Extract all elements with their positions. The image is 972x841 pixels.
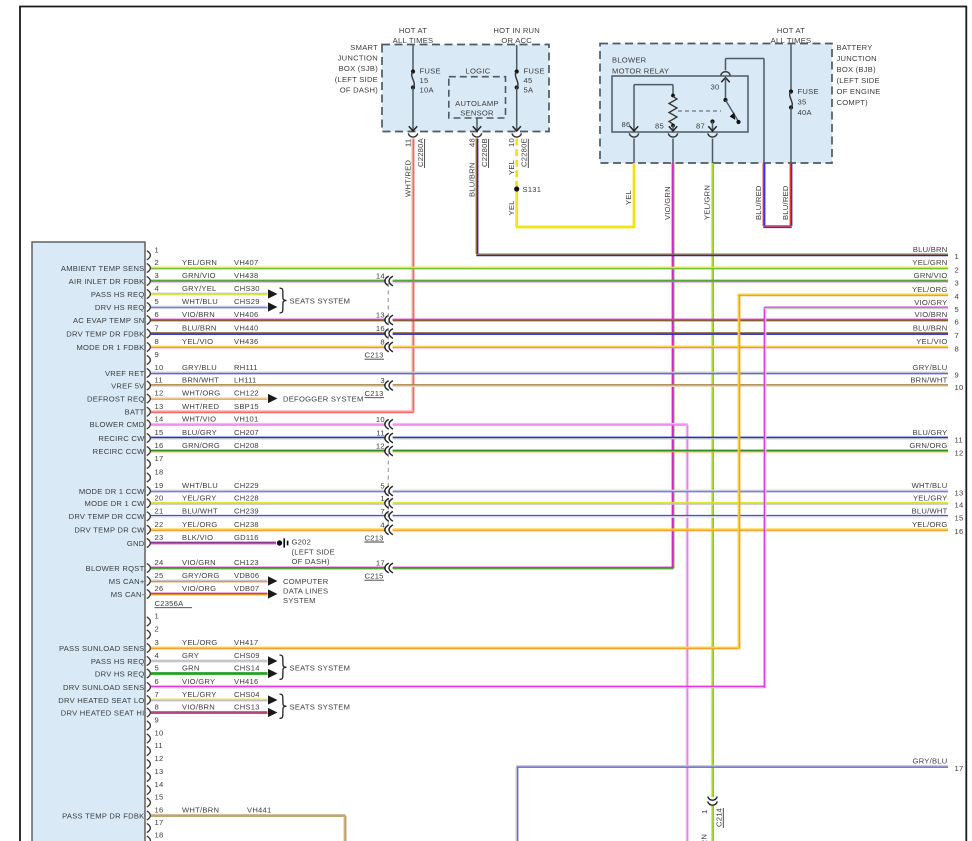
wire BLU/RED from relay pin 30 down [762, 163, 764, 226]
relay pin 30 connector arc at relay top [721, 72, 731, 76]
svg-text:5: 5 [155, 664, 159, 673]
module pin 16 [147, 446, 151, 455]
svg-text:11: 11 [155, 741, 163, 750]
module pin 7 (connector 2) [147, 695, 151, 704]
svg-text:16: 16 [376, 324, 385, 333]
svg-text:FUSE: FUSE [524, 67, 545, 76]
svg-text:GD116: GD116 [234, 533, 259, 542]
svg-text:YEL: YEL [507, 200, 516, 215]
svg-text:14: 14 [955, 501, 964, 510]
svg-text:PASS SUNLOAD SENS: PASS SUNLOAD SENS [59, 644, 145, 653]
svg-text:86: 86 [622, 120, 631, 129]
svg-text:AMBIENT TEMP SENS: AMBIENT TEMP SENS [61, 264, 145, 273]
svg-text:11: 11 [955, 435, 963, 444]
svg-text:40A: 40A [798, 108, 813, 117]
svg-text:ALL TIMES: ALL TIMES [393, 36, 434, 45]
svg-text:3: 3 [380, 376, 384, 385]
svg-text:VREF 5V: VREF 5V [111, 381, 145, 390]
svg-text:10: 10 [155, 363, 164, 372]
wire VIO/GRN CH123 row 24 (BLOWER RQST) [151, 566, 386, 568]
svg-text:GRN/VIO: GRN/VIO [914, 271, 948, 280]
blower motor relay dashed module box [600, 44, 832, 164]
wire WHT/BLU CH229 row 19 [151, 489, 386, 491]
svg-text:LH111: LH111 [234, 376, 257, 385]
svg-text:14: 14 [155, 780, 164, 789]
svg-text:AUTOLAMP: AUTOLAMP [455, 99, 499, 108]
svg-text:10: 10 [507, 138, 516, 147]
inline connector C213 pin 12 [385, 446, 389, 456]
svg-text:VIO/GRY: VIO/GRY [182, 677, 215, 686]
svg-text:BATT: BATT [125, 408, 145, 417]
svg-text:VH441: VH441 [247, 806, 271, 815]
wire GRY/BLU down off page [515, 767, 517, 841]
svg-text:WHT/BLU: WHT/BLU [182, 481, 218, 490]
svg-text:YEL/GRY: YEL/GRY [913, 493, 948, 502]
svg-text:GRY: GRY [182, 651, 199, 660]
svg-text:BLU/RED: BLU/RED [781, 185, 790, 220]
svg-text:GRY/BLU: GRY/BLU [182, 363, 217, 372]
svg-text:VH416: VH416 [234, 677, 258, 686]
relay coil between pins 86 and 85 [634, 84, 673, 86]
svg-text:14: 14 [155, 414, 164, 423]
svg-text:11: 11 [403, 139, 412, 147]
svg-text:48: 48 [467, 138, 476, 147]
svg-text:YEL/GRN: YEL/GRN [700, 834, 709, 841]
svg-text:11: 11 [376, 429, 384, 438]
svg-text:7: 7 [380, 507, 384, 516]
svg-text:1: 1 [955, 252, 959, 261]
svg-text:16: 16 [155, 441, 164, 450]
svg-text:7: 7 [955, 331, 959, 340]
svg-text:VDB06: VDB06 [234, 571, 259, 580]
module pin 15 (connector 2) [147, 798, 151, 807]
svg-text:21: 21 [155, 506, 164, 515]
relay pin 30 feed and movable contact arm [721, 78, 729, 83]
svg-text:BLU/WHT: BLU/WHT [182, 506, 218, 515]
svg-text:GRN: GRN [182, 664, 200, 673]
svg-text:BLU/BRN: BLU/BRN [913, 324, 948, 333]
module pin 3 (connector 2) [147, 643, 151, 652]
svg-text:COMPT): COMPT) [837, 98, 869, 107]
svg-text:RH111: RH111 [234, 363, 258, 372]
svg-text:VIO/GRN: VIO/GRN [663, 186, 672, 220]
module pin 3 [147, 276, 151, 285]
svg-text:15: 15 [420, 76, 429, 85]
svg-text:GRY/YEL: GRY/YEL [182, 284, 217, 293]
svg-text:YEL/VIO: YEL/VIO [182, 337, 213, 346]
svg-text:VH436: VH436 [234, 337, 258, 346]
svg-text:VIO/GRN: VIO/GRN [182, 558, 216, 567]
svg-text:S131: S131 [523, 185, 542, 194]
svg-text:3: 3 [955, 278, 959, 287]
svg-text:C2356A: C2356A [155, 599, 185, 608]
svg-text:OF ENGINE: OF ENGINE [837, 87, 881, 96]
svg-text:1: 1 [155, 612, 159, 621]
wire WHT/BRN VH441 row 16b [151, 814, 346, 816]
svg-text:C214: C214 [715, 808, 724, 827]
svg-text:6: 6 [955, 317, 959, 326]
module pin 5 (connector 2) [147, 669, 151, 678]
svg-text:4: 4 [380, 520, 384, 529]
svg-text:CH123: CH123 [234, 558, 259, 567]
wire WHT/RED SBP15 row 13 (BATT) [151, 410, 414, 412]
svg-text:19: 19 [155, 481, 164, 490]
svg-text:PASS HS REQ: PASS HS REQ [91, 290, 145, 299]
wire GRN CHS14 row 5b to seats system [151, 672, 268, 674]
svg-text:MOTOR RELAY: MOTOR RELAY [612, 67, 669, 76]
svg-text:BLU/BRN: BLU/BRN [913, 245, 948, 254]
svg-text:FUSE: FUSE [798, 87, 819, 96]
svg-text:CHS29: CHS29 [234, 297, 260, 306]
svg-text:CHS13: CHS13 [234, 703, 260, 712]
seats system brace 3 [280, 694, 287, 719]
module pin 20 [147, 499, 151, 508]
svg-text:8: 8 [955, 344, 959, 353]
svg-text:YEL/GRN: YEL/GRN [702, 185, 711, 220]
inline connector C213 pin 14 [385, 276, 389, 286]
wire BLU/RED bottom U-join [763, 225, 791, 227]
module pin 14 (connector 2) [147, 785, 151, 794]
svg-text:JUNCTION: JUNCTION [837, 54, 877, 63]
svg-text:VREF RET: VREF RET [105, 369, 145, 378]
wire autolamp sensor output [476, 118, 478, 130]
module pin 4 [147, 289, 151, 298]
inline connector C213 pin 5 [385, 486, 389, 496]
svg-text:JUNCTION: JUNCTION [338, 54, 378, 63]
svg-text:GRN/ORG: GRN/ORG [182, 441, 220, 450]
svg-text:17: 17 [155, 454, 164, 463]
relay pin 86 internal wire [633, 85, 635, 130]
svg-text:10: 10 [155, 729, 164, 738]
fuse F45 5A [516, 45, 518, 70]
seats system brace [280, 288, 287, 313]
svg-text:5A: 5A [524, 86, 534, 95]
autolamp sensor box [449, 77, 506, 118]
svg-text:3: 3 [155, 271, 159, 280]
svg-text:DRV TEMP DR FDBK: DRV TEMP DR FDBK [66, 329, 144, 338]
svg-text:RECIRC CCW: RECIRC CCW [93, 447, 145, 456]
svg-text:BLK/VIO: BLK/VIO [182, 533, 213, 542]
svg-text:SENSOR: SENSOR [460, 109, 494, 118]
svg-text:DRV HEATED SEAT LO: DRV HEATED SEAT LO [58, 696, 144, 705]
module pin 21 [147, 512, 151, 521]
wire BLU/GRY CH207 row 15 [151, 436, 386, 438]
wire WHT/VIO down off page [685, 425, 687, 841]
svg-text:YEL/ORG: YEL/ORG [182, 520, 218, 529]
svg-text:BATTERY: BATTERY [837, 43, 873, 52]
wire VIO/BRN CHS13 row 8b to seats system [151, 711, 268, 713]
svg-text:5: 5 [380, 482, 384, 491]
wire YEL/GRY CHS04 row 7b to seats system [151, 698, 268, 700]
wire VIO/BRN VH406 row 6 [151, 318, 386, 320]
wire GRY/BLU RH111 row 10 to pin 9 [151, 371, 948, 373]
svg-text:CH229: CH229 [234, 481, 259, 490]
svg-text:VH438: VH438 [234, 271, 258, 280]
svg-text:25: 25 [155, 571, 164, 580]
svg-text:13: 13 [155, 402, 164, 411]
svg-text:DATA LINES: DATA LINES [283, 587, 328, 596]
module pin 22 [147, 525, 151, 534]
svg-text:CHS04: CHS04 [234, 690, 260, 699]
svg-text:2: 2 [155, 625, 159, 634]
inline connector C215 pin 17 [385, 563, 389, 573]
splice S131 [514, 186, 519, 191]
svg-text:GRN/VIO: GRN/VIO [182, 271, 216, 280]
wire BLU/BRN from C2280B down then right to pin 1 [475, 139, 477, 255]
svg-text:DRV SUNLOAD SENS: DRV SUNLOAD SENS [63, 683, 145, 692]
wire WHT/VIO VH101 row 14 [151, 423, 386, 425]
svg-text:PASS TEMP DR FDBK: PASS TEMP DR FDBK [62, 811, 144, 820]
svg-text:12: 12 [955, 448, 964, 457]
svg-text:BLU/RED: BLU/RED [754, 185, 763, 220]
svg-text:13: 13 [155, 767, 164, 776]
wire GRN/VIO VH438 row 3 [151, 279, 386, 281]
svg-text:SBP15: SBP15 [234, 402, 259, 411]
module pin 19 [147, 486, 151, 495]
module pin 1 (connector 2) [147, 617, 151, 626]
svg-text:7: 7 [155, 324, 159, 333]
svg-text:CH228: CH228 [234, 493, 259, 502]
module pin 12 (connector 2) [147, 759, 151, 768]
svg-text:C2280A: C2280A [416, 137, 425, 167]
svg-text:(LEFT SIDE: (LEFT SIDE [837, 76, 880, 85]
svg-text:12: 12 [155, 389, 164, 398]
svg-text:BLU/GRY: BLU/GRY [913, 428, 948, 437]
svg-text:BRN/WHT: BRN/WHT [182, 376, 219, 385]
wire BLK/VIO GD116 row 23 to ground [151, 541, 276, 543]
module pin 18 [147, 473, 151, 482]
svg-text:LOGIC: LOGIC [466, 67, 491, 76]
wire YEL below splice S131 [515, 192, 517, 228]
wire BLU/RED from fuse 35 down [789, 163, 791, 226]
svg-text:(LEFT SIDE: (LEFT SIDE [335, 75, 378, 84]
svg-text:OR ACC: OR ACC [501, 36, 532, 45]
wire BRN/WHT LH111 row 11 [151, 384, 386, 386]
svg-text:14: 14 [376, 272, 385, 281]
svg-text:VDB07: VDB07 [234, 584, 259, 593]
svg-text:C213: C213 [365, 351, 384, 360]
svg-text:35: 35 [798, 98, 807, 107]
svg-text:WHT/ORG: WHT/ORG [182, 389, 220, 398]
svg-text:5: 5 [955, 305, 959, 314]
svg-text:4: 4 [955, 292, 959, 301]
svg-text:1: 1 [380, 494, 384, 503]
svg-text:17: 17 [955, 764, 964, 773]
wire GRY/YEL CHS30 row 4 to seats system [151, 292, 268, 294]
svg-text:DRV HS REQ: DRV HS REQ [95, 669, 145, 678]
svg-text:VIO/GRY: VIO/GRY [914, 298, 947, 307]
module pin 13 (connector 2) [147, 772, 151, 781]
svg-text:CHS14: CHS14 [234, 664, 260, 673]
svg-text:22: 22 [155, 520, 164, 529]
svg-text:CH207: CH207 [234, 428, 259, 437]
inline connector C213 pin 10 [385, 419, 389, 429]
module pin 9 [147, 355, 151, 364]
inline connector C213 pin 3 [385, 381, 389, 391]
svg-text:23: 23 [155, 533, 164, 542]
svg-text:DRV HS REQ: DRV HS REQ [95, 303, 145, 312]
module pin 11 [147, 381, 151, 390]
svg-text:16: 16 [955, 527, 964, 536]
module pin 5 [147, 302, 151, 311]
svg-text:VH407: VH407 [234, 258, 258, 267]
wire GRN/ORG CH208 row 16 [151, 449, 386, 451]
svg-text:8: 8 [380, 338, 384, 347]
svg-text:(LEFT SIDE: (LEFT SIDE [292, 548, 335, 557]
svg-text:3: 3 [155, 638, 159, 647]
fuse F35 40A [790, 44, 792, 91]
svg-text:VH406: VH406 [234, 310, 258, 319]
svg-text:CHS09: CHS09 [234, 651, 260, 660]
svg-text:WHT/VIO: WHT/VIO [182, 414, 216, 423]
svg-text:BLU/WHT: BLU/WHT [912, 506, 948, 515]
svg-text:5: 5 [155, 297, 159, 306]
module pin 10 [147, 368, 151, 377]
svg-text:FUSE: FUSE [420, 67, 441, 76]
svg-text:2: 2 [955, 265, 959, 274]
svg-text:6: 6 [155, 677, 159, 686]
svg-text:AIR INLET DR FDBK: AIR INLET DR FDBK [69, 277, 145, 286]
module pin 25 [147, 576, 151, 585]
svg-text:C215: C215 [365, 572, 384, 581]
wire YEL/ORG up to right pin 4 [737, 294, 739, 649]
svg-text:15: 15 [955, 514, 964, 523]
module pin 9 (connector 2) [147, 721, 151, 730]
connector C2280A pin 11 (WHT/RED leaves SJB) [408, 133, 418, 137]
svg-text:DEFOGGER SYSTEM: DEFOGGER SYSTEM [283, 395, 364, 404]
svg-text:VIO/BRN: VIO/BRN [915, 310, 948, 319]
svg-text:BRN/WHT: BRN/WHT [910, 376, 947, 385]
module pin 11 (connector 2) [147, 746, 151, 755]
wire WHT/BRN down off page [343, 816, 345, 841]
svg-text:10A: 10A [420, 86, 435, 95]
module pin 14 [147, 420, 151, 429]
svg-text:18: 18 [155, 831, 164, 840]
svg-text:HOT AT: HOT AT [399, 26, 427, 35]
svg-text:G202: G202 [292, 538, 312, 547]
wire WHT/BLU CHS29 row 5 to seats system [151, 305, 268, 307]
svg-text:9: 9 [155, 350, 159, 359]
svg-text:DRV HEATED SEAT HI: DRV HEATED SEAT HI [61, 708, 145, 717]
inline connector dashed gang line [387, 283, 389, 345]
module pin 23 [147, 538, 151, 547]
svg-text:7: 7 [155, 690, 159, 699]
svg-text:RECIRC CW: RECIRC CW [98, 434, 145, 443]
wire YEL/ORG VH417 row 3b to pin 4 [151, 646, 740, 648]
svg-text:DRV TEMP DR CCW: DRV TEMP DR CCW [69, 512, 145, 521]
svg-text:YEL/VIO: YEL/VIO [916, 337, 947, 346]
svg-text:WHT/RED: WHT/RED [403, 160, 412, 197]
wire VIO/ORG VDB07 row 26 MS CAN- [151, 592, 268, 594]
module pin 2 [147, 263, 151, 272]
svg-text:C213: C213 [365, 533, 384, 542]
svg-text:10: 10 [376, 415, 385, 424]
svg-text:30: 30 [711, 83, 720, 92]
svg-text:1: 1 [700, 810, 709, 814]
module pin 6 (connector 2) [147, 682, 151, 691]
svg-text:C213: C213 [365, 389, 384, 398]
svg-text:17: 17 [155, 818, 164, 827]
relay coil-contact linkage (dashed) [678, 110, 721, 112]
smart junction box SJB (dashed module box) [382, 45, 549, 132]
svg-text:8: 8 [155, 703, 159, 712]
module pin 26 [147, 589, 151, 598]
svg-text:17: 17 [376, 559, 385, 568]
svg-text:8: 8 [155, 337, 159, 346]
svg-text:YEL/GRN: YEL/GRN [912, 258, 947, 267]
module pin 8 [147, 342, 151, 351]
svg-text:12: 12 [155, 754, 164, 763]
svg-text:YEL/ORG: YEL/ORG [912, 520, 948, 529]
relay pin 86 connector arc [629, 133, 639, 137]
module pin 7 [147, 329, 151, 338]
relay pin 85 connector arc [668, 133, 678, 137]
ground G202 [277, 540, 282, 545]
svg-text:MODE DR 1 CW: MODE DR 1 CW [85, 499, 146, 508]
svg-text:WHT/RED: WHT/RED [182, 402, 219, 411]
inline connector C213 pin 4 [385, 525, 389, 535]
svg-text:GRY/ORG: GRY/ORG [182, 571, 219, 580]
svg-text:45: 45 [524, 76, 533, 85]
relay pin 87 connector arc [708, 133, 718, 137]
svg-text:16: 16 [155, 806, 164, 815]
wire WHT/ORG CH122 row 12 to defogger system [151, 397, 268, 399]
svg-text:26: 26 [155, 584, 164, 593]
svg-text:VIO/BRN: VIO/BRN [182, 310, 215, 319]
svg-text:CH239: CH239 [234, 506, 259, 515]
svg-text:13: 13 [955, 488, 964, 497]
svg-text:C2280B: C2280B [480, 138, 489, 167]
fuse F15 10A [412, 45, 414, 70]
module pin 4 (connector 2) [147, 656, 151, 665]
svg-text:9: 9 [155, 716, 159, 725]
svg-text:COMPUTER: COMPUTER [283, 577, 329, 586]
HVAC control module block [32, 242, 145, 841]
wire YEL/GRY CH228 row 20 [151, 502, 386, 504]
svg-text:1: 1 [155, 245, 159, 254]
svg-text:BLOWER CMD: BLOWER CMD [90, 420, 145, 429]
wire VIO/GRY VH416 row 6b to pin 5 [151, 685, 766, 687]
wire YEL/ORG CH238 row 22 [151, 528, 386, 530]
svg-text:MS CAN+: MS CAN+ [109, 577, 145, 586]
inline connector C213 pin 13 [385, 315, 389, 325]
inline connector C214 pin 1 on YEL/GRN [708, 797, 718, 801]
svg-text:6: 6 [155, 310, 159, 319]
wire YEL/VIO VH436 row 8 [151, 345, 386, 347]
wire YEL/GRN from relay pin 87 down off page [711, 163, 713, 797]
svg-text:HOT AT: HOT AT [777, 26, 805, 35]
wire BLU/BRN top to right pin 1 [476, 253, 948, 255]
svg-text:10: 10 [955, 383, 964, 392]
svg-text:12: 12 [376, 442, 385, 451]
svg-text:WHT/BLU: WHT/BLU [182, 297, 218, 306]
svg-text:BLU/BRN: BLU/BRN [182, 324, 217, 333]
svg-text:CHS30: CHS30 [234, 284, 260, 293]
svg-text:BLOWER RQST: BLOWER RQST [86, 564, 145, 573]
svg-text:11: 11 [155, 376, 163, 385]
svg-text:GRY/BLU: GRY/BLU [913, 363, 948, 372]
svg-text:VIO/BRN: VIO/BRN [182, 703, 215, 712]
svg-text:SMART: SMART [350, 43, 378, 52]
module pin 1 [147, 251, 151, 260]
inline connector C213 pin 1 [385, 498, 389, 508]
svg-text:VH417: VH417 [234, 638, 258, 647]
svg-text:GRN/ORG: GRN/ORG [909, 441, 947, 450]
module pin 6 [147, 315, 151, 324]
svg-text:YEL/ORG: YEL/ORG [182, 638, 218, 647]
relay body box [612, 76, 748, 132]
wire GRY/BLU to right pin 17 [516, 765, 948, 767]
